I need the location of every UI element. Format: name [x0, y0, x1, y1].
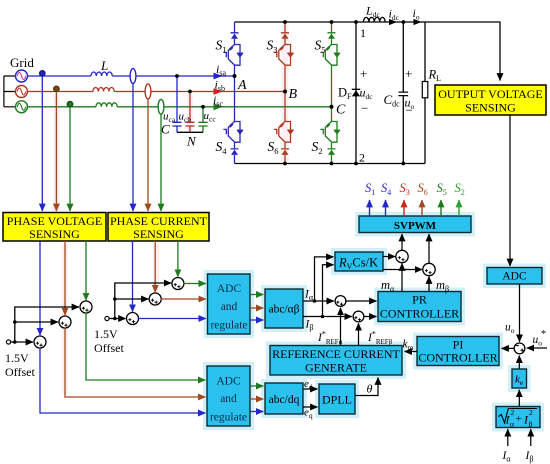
svg-text:2: 2 — [529, 408, 533, 417]
svg-text:SENSING: SENSING — [29, 227, 80, 241]
svg-text:N: N — [186, 134, 197, 149]
svg-text:Grid: Grid — [10, 55, 34, 70]
svg-text:Offset: Offset — [94, 341, 124, 355]
svg-text:PR: PR — [412, 293, 427, 307]
svg-text:SVPWM: SVPWM — [394, 220, 437, 232]
svg-text:PHASE VOLTAGE: PHASE VOLTAGE — [7, 214, 102, 228]
svg-text:abc/αβ: abc/αβ — [268, 304, 299, 316]
svg-text:CONTROLLER: CONTROLLER — [418, 351, 497, 365]
svg-text:B: B — [289, 87, 298, 102]
svg-text:C: C — [336, 103, 346, 118]
svg-text:*: * — [541, 329, 546, 340]
svg-text:Offset: Offset — [5, 365, 35, 379]
svg-text:ADC: ADC — [502, 271, 527, 283]
svg-text:PHASE CURRENT: PHASE CURRENT — [110, 214, 208, 228]
svg-text:PI: PI — [453, 338, 464, 352]
svg-text:+: + — [516, 413, 522, 425]
svg-text:2: 2 — [359, 151, 365, 165]
svg-text:and: and — [221, 301, 238, 313]
svg-text:1: 1 — [360, 26, 366, 40]
svg-text:β: β — [529, 420, 533, 429]
svg-text:1.5V: 1.5V — [5, 351, 29, 365]
svg-text:DPLL: DPLL — [322, 393, 352, 407]
svg-text:regulate: regulate — [210, 320, 247, 332]
svg-text:+: + — [360, 66, 367, 81]
svg-text:θ: θ — [367, 382, 373, 396]
svg-text:regulate: regulate — [210, 412, 247, 424]
svg-text:1.5V: 1.5V — [94, 327, 118, 341]
svg-text:SENSING: SENSING — [465, 101, 516, 115]
svg-text:and: and — [220, 393, 237, 405]
svg-text:ADC: ADC — [216, 376, 241, 388]
svg-text:RVCs/K: RVCs/K — [338, 256, 378, 272]
svg-text:GENERATE: GENERATE — [305, 361, 367, 375]
svg-text:abc/dq: abc/dq — [269, 394, 300, 406]
svg-text:REFERENCE CURRENT: REFERENCE CURRENT — [272, 347, 400, 361]
svg-text:−: − — [361, 101, 368, 116]
svg-text:α: α — [510, 420, 514, 429]
svg-text:SENSING: SENSING — [133, 227, 184, 241]
svg-text:ADC: ADC — [217, 283, 242, 295]
svg-text:2: 2 — [511, 408, 515, 417]
svg-text:A: A — [237, 78, 247, 93]
svg-text:OUTPUT VOLTAGE: OUTPUT VOLTAGE — [438, 87, 543, 101]
svg-text:L: L — [100, 58, 108, 73]
svg-text:+: + — [405, 66, 412, 81]
svg-text:CONTROLLER: CONTROLLER — [380, 307, 459, 321]
